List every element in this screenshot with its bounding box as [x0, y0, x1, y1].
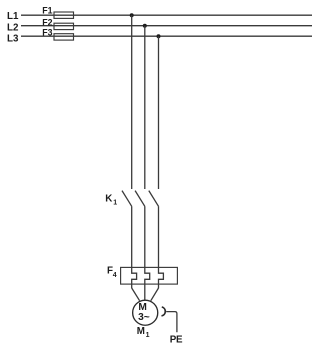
contactor K1 contact pole 3 — [149, 191, 159, 207]
svg-text:4: 4 — [113, 272, 117, 279]
PE terminal clamp arc — [162, 307, 166, 316]
contactor K1 label — [105, 194, 117, 207]
svg-text:F1: F1 — [42, 6, 52, 16]
svg-text:PE: PE — [170, 335, 183, 346]
label PE — [170, 335, 183, 346]
svg-text:M: M — [137, 326, 145, 337]
svg-text:L2: L2 — [7, 23, 19, 34]
wire L2 — [21, 25, 312, 27]
node junction L1 tap — [130, 13, 134, 17]
fuse F3 — [42, 28, 73, 40]
svg-text:F2: F2 — [42, 17, 52, 27]
svg-text:1: 1 — [146, 332, 150, 339]
wire F4 output 1 to motor (diagonal) — [132, 288, 140, 301]
wire L1 — [21, 14, 312, 16]
fuse F1 — [42, 6, 73, 19]
contactor K1 contact pole 2 — [135, 191, 145, 207]
svg-text:F3: F3 — [42, 28, 52, 38]
node junction L3 tap — [157, 34, 161, 38]
wire F4 output 3 to motor (diagonal) — [151, 288, 159, 301]
overload relay F4 label — [107, 266, 117, 280]
wire drop from L1 to K1 pole 1 — [131, 15, 133, 189]
label L2 — [7, 23, 19, 34]
motor M1 circle — [133, 300, 158, 325]
overload relay F4 box — [121, 267, 178, 284]
label L3 — [7, 34, 19, 45]
svg-text:L3: L3 — [7, 34, 19, 45]
svg-text:1: 1 — [113, 200, 117, 207]
wire K1 pole 3 to F4 element 3 (with thermal jog) — [159, 206, 164, 288]
svg-text:3~: 3~ — [138, 312, 150, 323]
svg-text:K: K — [105, 194, 112, 205]
motor M1 label — [137, 326, 150, 339]
label L1 — [7, 11, 19, 22]
contactor K1 contact pole 1 — [122, 191, 132, 207]
node junction L2 tap — [143, 24, 147, 28]
wire drop from L2 to K1 pole 2 — [144, 26, 146, 189]
wire L3 — [21, 35, 312, 37]
wire drop from L3 to K1 pole 3 — [158, 36, 160, 189]
wire PE — [166, 312, 177, 333]
wire K1 pole 2 to F4 element 2 (with thermal jog) — [145, 206, 150, 300]
wire K1 pole 1 to F4 element 1 (with thermal jog) — [132, 206, 137, 288]
svg-text:L1: L1 — [7, 11, 19, 22]
motor M text — [138, 302, 147, 313]
fuse F2 — [42, 17, 73, 29]
motor 3~ text — [138, 312, 150, 323]
